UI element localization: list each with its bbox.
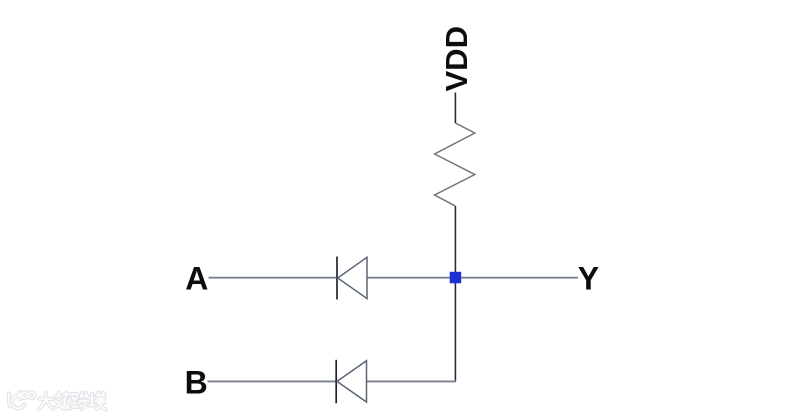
svg-text:Y: Y xyxy=(578,261,599,297)
svg-text:VDD: VDD xyxy=(439,26,474,91)
svg-text:B: B xyxy=(185,364,208,400)
svg-text:A: A xyxy=(185,261,208,297)
